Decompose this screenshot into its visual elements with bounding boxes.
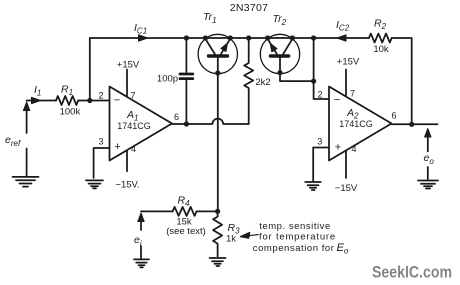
svg-text:3: 3 [317,136,322,146]
svg-text:IC1: IC1 [134,22,147,36]
transistor Tr1 [198,34,237,211]
svg-text:100k: 100k [60,107,81,118]
svg-text:temp. sensitive: temp. sensitive [259,221,331,232]
node cap bottom [184,121,189,126]
svg-text:1k: 1k [226,234,236,245]
wire A2 output [392,123,438,125]
node Tr1 base circle [215,70,220,75]
op-amp A2 [329,87,392,161]
svg-text:−15V: −15V [335,183,358,194]
wire R1 to A1 pin2 [78,100,109,102]
op-amp A1 [110,87,173,161]
svg-text:7: 7 [130,91,135,101]
svg-text:2N3707: 2N3707 [230,2,269,14]
transistor Tr2 [260,34,313,81]
arrow I_C1 [139,35,148,41]
svg-text:100p: 100p [157,74,178,85]
arrow I_C2 [337,35,346,41]
wire top I_C1 rail [90,37,369,39]
svg-text:R1: R1 [61,84,73,98]
svg-text:R4: R4 [178,195,191,209]
wire A1 output with hop over Tr1 base [172,119,249,124]
node cap top [184,35,189,40]
wire R4 to e_i [141,210,173,212]
svg-text:+15V: +15V [117,60,140,71]
node Tr2 base circle [277,70,282,75]
node Tr2 collector [290,35,295,40]
svg-text:+: + [335,142,341,154]
node A2 rail tap [311,35,316,40]
svg-text:eo: eo [424,152,435,166]
svg-text:R2: R2 [374,18,387,32]
ground R3 [210,258,226,266]
svg-text:eref: eref [5,134,21,148]
arrow I_1 [32,97,41,103]
wire input e_ref to R1 [27,100,56,102]
ground e_o [418,181,438,189]
node 2k2 top [246,35,251,40]
svg-text:IC2: IC2 [336,19,350,33]
svg-text:+15V: +15V [337,57,360,68]
resistor R3 [213,211,222,256]
svg-text:−: − [334,94,340,106]
svg-text:Tr2: Tr2 [273,13,287,27]
resistor R4 [173,207,197,216]
wire A2 pin7 +15V [345,70,347,97]
wire A2 pin4 -15V [345,150,347,178]
svg-text:10k: 10k [373,44,389,55]
svg-text:Eo: Eo [337,242,349,256]
svg-text:for temperature: for temperature [259,232,336,243]
wire vertical from node to top wire [89,38,91,101]
svg-text:−15V.: −15V. [115,180,139,191]
wire A2 pin2 from top rail [314,38,329,99]
svg-text:7: 7 [350,89,355,99]
svg-text:(see text): (see text) [166,226,206,237]
arrow annotation pointing to R3 [241,232,259,238]
wire A1 pin3 to ground [94,148,110,178]
svg-text:2k2: 2k2 [255,77,270,88]
wire R4 to junction [197,210,218,212]
node R4 R3 junction [215,209,220,214]
wire A1 pin4 -15V [126,150,128,171]
node Tr1 collector [203,35,208,40]
node A1 pin2 junction [87,98,92,103]
svg-text:+: + [114,141,120,153]
arrow e_o [425,129,431,180]
svg-text:Tr1: Tr1 [203,11,217,25]
ground e_ref [13,177,39,187]
wire A1 pin7 +15V [126,70,128,97]
svg-text:1741CG: 1741CG [339,119,373,129]
capacitor C 100p [180,38,193,124]
svg-text:3: 3 [98,137,103,147]
svg-text:6: 6 [391,111,396,121]
svg-text:compensation for: compensation for [253,243,335,254]
resistor R1 [56,96,78,105]
node Tr2 base to A2 [311,79,316,84]
resistor R2 [369,34,392,43]
node R2 output junction [409,122,414,127]
ground e_i [134,259,149,267]
ground A1 pin3 [86,180,103,188]
svg-text:SeekIC.com: SeekIC.com [372,263,452,282]
svg-text:ei: ei [134,234,142,248]
wire R2 to output corner [392,38,412,124]
arrow e_ref [23,102,29,176]
svg-text:I1: I1 [34,84,41,98]
svg-text:−: − [114,95,120,107]
wire A2 pin3 to ground [313,148,329,182]
svg-text:4: 4 [351,144,356,154]
node Tr1 emitter [228,35,233,40]
arrow e_i [138,213,144,258]
svg-text:1741CG: 1741CG [117,121,151,131]
svg-text:4: 4 [131,144,136,154]
node Tr2 emitter [265,35,270,40]
svg-text:2: 2 [317,90,322,100]
resistor 2k2 [244,38,253,124]
svg-text:6: 6 [174,112,179,122]
svg-text:2: 2 [98,91,103,101]
ground A2 pin3 [305,182,321,190]
